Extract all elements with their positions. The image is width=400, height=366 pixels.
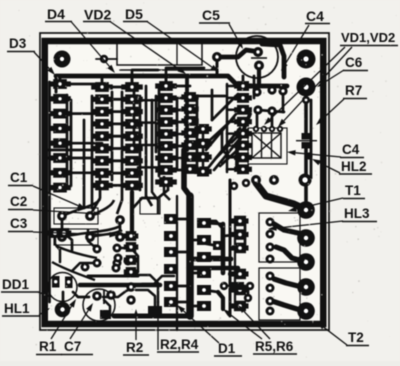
wire row link B	[102, 98, 132, 101]
svg-text:HL2: HL2	[341, 159, 367, 174]
pad 248-298	[244, 294, 252, 302]
wire 202-222	[202, 221, 222, 241]
big pad right 2	[297, 229, 315, 247]
wire bl 2	[117, 248, 138, 272]
C5 pad -	[254, 61, 264, 71]
mounting pad top-left	[54, 51, 71, 68]
leader T1	[296, 198, 343, 209]
capacitor C5 outline	[236, 36, 278, 78]
wire bl 10	[104, 300, 110, 315]
resistor D5 outline	[117, 42, 202, 65]
wire diagonal	[214, 136, 242, 170]
diode VD1	[252, 133, 281, 158]
ic DD1 outline	[48, 273, 77, 302]
leader C5	[229, 24, 239, 42]
wire thick bottom long	[114, 314, 190, 319]
leader R2	[135, 318, 137, 341]
svg-text:R1: R1	[39, 339, 57, 354]
leader R2R4	[157, 299, 159, 350]
wire row link B	[102, 135, 132, 138]
wire diagonal	[206, 114, 236, 150]
wire 174 col	[142, 276, 174, 284]
wire bl 8	[55, 233, 60, 262]
wire row link C2	[170, 157, 186, 160]
wire left rail	[48, 82, 51, 302]
wire rail 177 lower	[176, 196, 178, 330]
wire thick top-right elbow	[262, 44, 284, 77]
pad bl	[93, 245, 102, 254]
wire row link G	[227, 85, 243, 88]
C5 pad +	[253, 47, 263, 57]
wire row link A	[60, 83, 102, 86]
wire row link A	[60, 142, 102, 145]
svg-text:T2: T2	[348, 330, 364, 345]
svg-text:D1: D1	[218, 341, 236, 356]
wire vert 122	[121, 92, 124, 180]
wire 158 to bar	[157, 302, 160, 316]
wire diagonal	[212, 94, 238, 120]
wire thick to pad2	[274, 224, 305, 237]
wire 203 col	[202, 129, 205, 171]
pad 224-286	[220, 282, 228, 290]
wire thick to pad3	[276, 247, 303, 261]
wire bus stub	[101, 76, 104, 84]
wire row link BC	[138, 144, 160, 147]
svg-text:VD2: VD2	[84, 7, 111, 23]
svg-text:C1: C1	[10, 170, 28, 185]
wire thick diag vd	[237, 114, 250, 168]
wire vert 197	[196, 100, 199, 172]
transistor R1C7 outline	[83, 289, 115, 321]
svg-text:D4: D4	[47, 6, 65, 22]
svg-text:T1: T1	[345, 183, 361, 198]
wire 311 vert	[310, 100, 313, 178]
wire row link B	[102, 110, 132, 113]
wire bus stub	[242, 76, 245, 84]
pad 306-100	[302, 96, 310, 104]
ic small outline	[140, 198, 160, 214]
svg-text:C4: C4	[342, 142, 360, 157]
bus drop 187	[185, 76, 189, 150]
wire thick mid elbow	[184, 150, 190, 196]
pad pair DD1 top	[48, 230, 63, 235]
wire row link BC	[138, 166, 160, 169]
svg-text:C5: C5	[202, 7, 220, 23]
wire vert 67	[66, 95, 69, 186]
component pad sq	[213, 241, 222, 250]
svg-text:C2: C2	[10, 194, 27, 209]
svg-text:D3: D3	[9, 36, 27, 51]
leader C7	[70, 310, 88, 339]
wire rail spurs	[48, 149, 96, 152]
wire diagonal	[208, 128, 240, 168]
big pad top-right 1	[297, 50, 316, 69]
wire row link B	[102, 159, 132, 162]
wire bl 3	[72, 263, 97, 271]
leader R5R6 b	[244, 311, 270, 339]
wire vert 146	[145, 86, 148, 162]
wire 202-217	[202, 243, 213, 245]
wire bridge feed	[256, 110, 259, 129]
capacitor C6 body	[302, 133, 311, 140]
wire row link G	[227, 109, 243, 112]
wire bl 6	[73, 292, 89, 297]
wire row link C2	[170, 133, 186, 136]
wire row link C	[166, 121, 190, 124]
pad bl	[112, 264, 121, 273]
component D bottom	[230, 282, 244, 290]
wire row link C	[166, 85, 190, 88]
leader C1	[33, 186, 78, 206]
wire thick 132 drop	[130, 192, 134, 232]
wire thick 223b	[218, 292, 223, 309]
big pad right 3	[297, 253, 315, 271]
R1C7 pads	[92, 291, 102, 301]
pad column bottom mid a	[124, 232, 139, 305]
leader HL1	[39, 313, 43, 315]
wire 283 vert	[282, 96, 285, 112]
wire 120 drop	[119, 220, 122, 237]
wire 262 spur	[258, 110, 284, 112]
pads mid right	[251, 175, 261, 185]
wire thick c5 a	[217, 50, 257, 57]
svg-text:R5,R6: R5,R6	[255, 339, 294, 354]
wire c5 divider	[251, 57, 267, 59]
wire row link A	[60, 171, 102, 174]
pad column DD4	[194, 125, 211, 177]
wire vert 134	[133, 90, 136, 152]
pad column X1	[49, 80, 71, 192]
pad column 240 lower	[232, 216, 249, 311]
pad c-group	[115, 232, 125, 242]
wire vert 156	[155, 96, 158, 152]
wire vert 71	[70, 100, 73, 186]
wire rail 227	[226, 84, 229, 172]
wire row link BC	[138, 99, 160, 102]
svg-text:C3: C3	[10, 216, 28, 231]
pad c-group	[85, 211, 95, 221]
pad column DD5 left	[234, 82, 252, 174]
wire diagonal	[210, 118, 234, 140]
wire 62 drop	[61, 216, 64, 230]
wire bridge feed2	[271, 111, 274, 129]
wire bl 4	[103, 289, 131, 297]
svg-text:C7: C7	[64, 339, 81, 354]
wire row link C	[166, 109, 190, 112]
svg-text:C4: C4	[306, 8, 324, 24]
wire row link C2	[170, 97, 186, 100]
wire vert 84	[83, 120, 86, 208]
DD1 pads	[52, 276, 60, 288]
wire 245 col drop	[244, 222, 247, 247]
pad column DD2 right	[121, 83, 143, 190]
wire bl 9	[64, 233, 72, 250]
component R bottom2	[148, 306, 162, 314]
D5 inner divider	[176, 42, 178, 65]
led HL1	[55, 302, 71, 318]
svg-text:R7: R7	[345, 83, 362, 98]
wire rail 235 lower	[234, 218, 236, 310]
wire row link A	[60, 112, 102, 115]
big pad top-right 2	[297, 78, 316, 97]
vertical trace right lower	[304, 149, 308, 203]
wire row link G	[227, 120, 243, 123]
wire bl 7	[131, 275, 158, 302]
leader R7	[322, 99, 344, 119]
big pad right 5	[297, 302, 315, 320]
wire row link B	[102, 184, 132, 187]
vertical trace right	[304, 96, 308, 133]
wire row link BC	[138, 121, 160, 124]
big pad right 1	[297, 201, 315, 219]
leader R5R6 a	[230, 314, 262, 339]
svg-text:C6: C6	[345, 55, 363, 70]
bus drop 254	[253, 76, 256, 98]
wire 230 vert	[229, 180, 232, 316]
leader VD1 a	[270, 47, 345, 119]
wire thick to pad4	[274, 279, 305, 287]
wire vert 159	[158, 86, 161, 176]
component R bottom	[100, 310, 111, 319]
wire 217 drop	[216, 62, 219, 76]
pad 250-286	[246, 282, 254, 290]
wire row link C	[166, 145, 190, 148]
svg-text:R2,R4: R2,R4	[160, 337, 199, 352]
svg-text:HL3: HL3	[344, 206, 370, 221]
wire thick to pad5	[272, 301, 304, 311]
wire row link B	[102, 172, 132, 175]
wire thick bottom h2	[193, 266, 238, 270]
wire vert 212	[211, 90, 214, 120]
leader D5	[147, 22, 212, 68]
leader VD2	[110, 22, 179, 70]
wire vert 140	[139, 96, 142, 190]
wire under D5	[120, 69, 216, 71]
capacitor C2 outline	[54, 229, 98, 245]
bridge pads	[253, 126, 259, 132]
leader C6	[324, 70, 344, 83]
wire curves	[62, 199, 122, 237]
wire rail spur2	[48, 157, 92, 160]
wire bus stub	[131, 76, 134, 84]
wire vert 177	[176, 100, 179, 168]
wire T col links	[171, 219, 240, 306]
svg-text:HL1: HL1	[4, 301, 30, 316]
svg-text:DD1: DD1	[2, 277, 29, 292]
leader DD1	[38, 292, 43, 294]
bus stub left	[55, 76, 58, 92]
pad column T lower left	[164, 214, 178, 307]
pad top of rect	[230, 182, 238, 190]
wire row link G	[227, 97, 243, 100]
wire diagonal	[220, 144, 244, 166]
wire bundle elbows	[92, 160, 168, 214]
pad c-group	[115, 215, 125, 225]
svg-text:D5: D5	[125, 6, 143, 22]
wire row link C	[166, 169, 190, 172]
wire thick bottom h1	[193, 257, 231, 262]
pad bl	[124, 257, 133, 266]
wire DD3 top	[166, 68, 204, 86]
wire 243-157 elbow	[222, 132, 243, 157]
wire thick to pad1	[256, 183, 305, 209]
power bus	[56, 76, 287, 86]
module HL2 outline	[259, 213, 300, 262]
pad mid-right	[299, 174, 312, 187]
wire row link G	[227, 144, 243, 147]
wire row link G	[227, 168, 243, 171]
leader C3	[33, 232, 110, 235]
pad 283	[278, 86, 287, 95]
pad column module left	[266, 218, 275, 316]
board outer edge	[40, 33, 329, 330]
wire D bottom	[224, 285, 250, 288]
pad c-group	[57, 211, 67, 221]
pad c-group	[57, 232, 67, 242]
wire vert 92	[91, 96, 94, 208]
leader C4 right	[296, 153, 342, 157]
wire thick c5 b	[257, 66, 261, 85]
leader R1	[51, 306, 72, 339]
pad bl	[81, 263, 90, 272]
wire row link B	[102, 147, 132, 150]
pads above bridge	[252, 85, 276, 115]
wire 248 drop	[247, 286, 250, 298]
leader HL3	[277, 221, 344, 228]
ground ring trace	[45, 41, 324, 324]
wire 132 top	[132, 70, 158, 89]
capacitor C1 outline	[54, 208, 98, 224]
leader D4	[71, 22, 110, 67]
pad HL2 target	[305, 152, 312, 159]
big pad right 4	[297, 278, 315, 296]
wire row link G	[227, 156, 243, 159]
wire row link B	[102, 86, 132, 89]
wire 230 links	[230, 221, 240, 290]
leader D3	[34, 52, 49, 69]
leader HL2	[320, 163, 340, 173]
wire thick bl h1	[80, 283, 160, 288]
pad bl	[113, 244, 122, 253]
wire thick bl h2	[88, 275, 138, 278]
leader C2	[33, 210, 93, 214]
pad column DD2 left	[91, 83, 113, 190]
wire vert 152	[151, 100, 154, 166]
wire bl 1	[88, 230, 97, 249]
wire row link CD	[195, 95, 225, 98]
wire thick center	[186, 196, 194, 316]
wire diagonal	[216, 134, 240, 158]
module HL3 outline	[259, 268, 300, 320]
bridge outline	[248, 128, 287, 164]
leader T2	[324, 327, 347, 345]
wire bus stub	[165, 76, 168, 84]
leader C4 top	[285, 25, 309, 64]
wire row link B	[102, 123, 132, 126]
wire bl 5	[62, 292, 65, 302]
leader VD1 b	[284, 47, 352, 121]
pad bl	[93, 259, 102, 268]
svg-text:VD1,VD2: VD1,VD2	[341, 30, 395, 45]
pad bl	[113, 259, 122, 268]
wire curves2	[52, 246, 97, 280]
wire bl 11	[136, 290, 155, 306]
wire bus stub	[59, 76, 62, 84]
pad column DD3 left	[155, 82, 177, 187]
pad column DD3 right	[181, 93, 198, 174]
pad VD2 anode	[100, 55, 108, 63]
wire bundle elbows2	[152, 164, 170, 214]
wire row link G	[227, 132, 243, 135]
svg-text:R2: R2	[126, 340, 143, 355]
wire vd2 pad trace	[96, 58, 117, 60]
leader D1	[183, 311, 219, 343]
pad bl	[114, 254, 123, 263]
pad node	[212, 52, 222, 62]
wire vert 112	[111, 92, 114, 180]
pad column T lower right	[197, 218, 211, 311]
pad c-group	[85, 232, 95, 242]
wire thick 223	[221, 224, 226, 273]
